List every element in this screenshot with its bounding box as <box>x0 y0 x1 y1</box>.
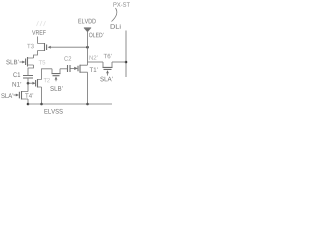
node N1 dot <box>27 82 30 85</box>
wire SLA lead <box>14 94 17 96</box>
wire drive-top to T2sw <box>42 69 53 80</box>
wire T4 bottom to rail <box>27 99 29 104</box>
transistor T2 drive <box>38 80 42 88</box>
wire SLB lead <box>20 61 23 63</box>
transistor T2 gate arrow <box>32 82 35 85</box>
node junction dot T4-rail <box>27 103 30 106</box>
wire T6 to DLi <box>112 61 126 63</box>
wire SLB2 to C2 <box>60 68 68 70</box>
wire N1 to T2 gate <box>28 82 33 84</box>
node SLB bottom label <box>50 86 62 91</box>
node SLB left label <box>6 60 18 65</box>
wire data line DLi <box>125 31 127 78</box>
wire T6 gate lead <box>107 73 109 76</box>
transistor T6 gate arrow <box>106 70 109 73</box>
wire T4 top to N1 <box>27 83 29 91</box>
wire T1 bottom to rail <box>87 72 89 104</box>
transistor T3 <box>38 44 45 51</box>
wire VREF down to T3 <box>37 37 39 44</box>
transistor T2sw gate arrow <box>55 76 58 79</box>
transistor T5 gate arrow <box>22 61 25 64</box>
node SLA left label <box>1 93 13 98</box>
node N1 label <box>13 82 22 87</box>
transistor T5 <box>28 58 34 65</box>
capacitor C1 label <box>13 72 20 77</box>
capacitor C2 label <box>64 56 71 61</box>
node VREF label <box>32 30 46 35</box>
transistor T3 gate arrow <box>48 46 51 49</box>
transistor T3 label <box>27 44 34 49</box>
transistor T2sw (SLB gated) <box>52 69 60 74</box>
node junction dot on ELVDD wire <box>86 46 89 49</box>
wire T3 to T5 <box>34 51 38 59</box>
node junction dot T1-rail <box>86 103 89 106</box>
pixel label PX-ST <box>113 2 129 7</box>
power ELVDD terminal symbol <box>84 28 91 32</box>
node junction dot T2-rail <box>40 103 43 106</box>
wire C2 to T1 gate <box>70 68 75 70</box>
wire T5 to C1 top <box>28 65 34 76</box>
wire T2sw gate lead <box>55 79 57 81</box>
transistor T6 <box>103 62 112 67</box>
capacitor C1 <box>23 76 33 79</box>
node junction dot DLi <box>125 61 128 64</box>
transistor T4 label <box>25 93 33 97</box>
OLED label <box>89 33 103 38</box>
transistor T1 label <box>90 68 98 72</box>
leader arc from PX-ST <box>112 8 117 22</box>
node SLA right label <box>100 77 112 82</box>
wire T3 gate line <box>50 46 87 48</box>
transistor T5 label <box>39 60 46 64</box>
wire branch to T6 <box>88 61 104 63</box>
power ELVDD label <box>78 19 95 24</box>
transistor T4 <box>22 92 29 100</box>
capacitor C2 <box>68 65 71 72</box>
transistor T1 gate arrow <box>74 67 78 70</box>
tick marks above VREF <box>37 21 46 26</box>
power ELVSS rail <box>28 103 112 105</box>
power ELVSS label <box>44 109 62 114</box>
wire T2 bottom to rail <box>41 87 43 104</box>
transistor T1 <box>80 65 88 72</box>
wire C1 bottom to N1 <box>27 78 29 83</box>
wire ELVDD down <box>87 32 89 66</box>
transistor T2 label <box>44 78 50 82</box>
transistor T4 gate arrow <box>16 94 19 97</box>
node DLi label <box>111 24 121 29</box>
node N2 label <box>89 55 97 59</box>
transistor T6 label <box>104 54 112 59</box>
